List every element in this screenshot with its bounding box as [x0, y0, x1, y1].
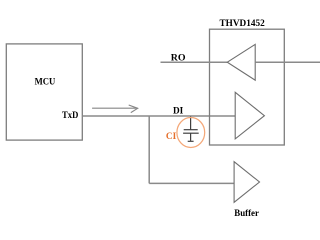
svg-text:Buffer: Buffer: [234, 208, 259, 219]
svg-text:DI: DI: [173, 106, 183, 117]
svg-text:CI: CI: [166, 131, 176, 142]
MCU box: [6, 44, 82, 140]
signal-flow arrow: [92, 105, 138, 113]
svg-text:TxD: TxD: [62, 110, 78, 121]
wire RO: [161, 61, 228, 63]
THVD1452 box U1: [210, 29, 285, 145]
receiver triangle (points left): [227, 44, 255, 80]
svg-text:MCU: MCU: [35, 77, 56, 88]
driver triangle (points right): [235, 92, 264, 139]
highlight ellipse around CI: [177, 118, 205, 148]
capacitor CI: [183, 117, 199, 142]
node: branch junction vertical wire: [148, 116, 150, 183]
svg-text:THVD1452: THVD1452: [220, 18, 265, 29]
wire TxD to DI: [83, 115, 236, 117]
wire to buffer: [149, 182, 234, 184]
buffer triangle: [234, 162, 259, 203]
wire bus side RO: [255, 61, 320, 63]
